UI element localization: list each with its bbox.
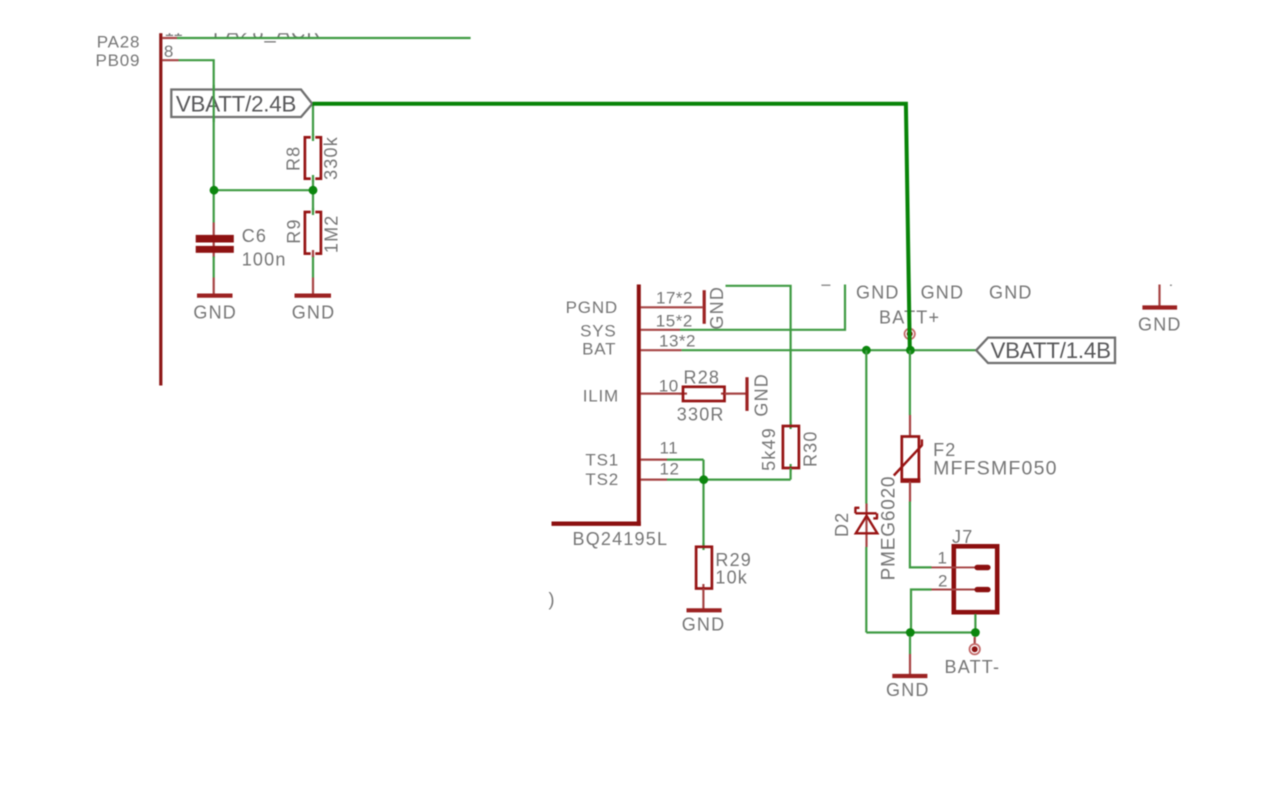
svg-text:VBATT/1.4B: VBATT/1.4B	[991, 338, 1111, 363]
svg-text:J7: J7	[952, 527, 973, 547]
svg-text:330k: 330k	[321, 136, 341, 180]
svg-text:100n: 100n	[242, 250, 287, 270]
svg-text:ILIM: ILIM	[583, 386, 619, 405]
svg-text:10k: 10k	[715, 568, 748, 588]
svg-text:BQ24195L: BQ24195L	[573, 529, 669, 549]
svg-text:R8: R8	[283, 146, 303, 171]
svg-text:GND: GND	[856, 282, 900, 302]
svg-text:PMEG6020: PMEG6020	[879, 476, 900, 581]
svg-text:5k49: 5k49	[759, 427, 779, 471]
svg-text:GND: GND	[1138, 314, 1182, 334]
svg-text:D2: D2	[832, 512, 852, 537]
svg-text:8: 8	[164, 42, 174, 61]
svg-text:R28: R28	[684, 367, 721, 387]
svg-text:R30: R30	[800, 430, 820, 467]
svg-text:GND: GND	[921, 282, 965, 302]
svg-text:2: 2	[938, 572, 948, 591]
svg-text:PA28: PA28	[97, 32, 141, 51]
svg-text:): )	[549, 590, 556, 610]
svg-text:BAT: BAT	[582, 340, 616, 359]
svg-text:MFFSMF050: MFFSMF050	[933, 457, 1058, 479]
svg-text:SYS: SYS	[580, 322, 616, 341]
svg-text:GND: GND	[292, 302, 336, 322]
svg-text:PGND: PGND	[566, 298, 618, 317]
svg-text:GND: GND	[707, 286, 727, 330]
svg-text:330R: 330R	[677, 404, 725, 424]
svg-text:12: 12	[660, 459, 680, 478]
svg-text:17*2: 17*2	[656, 288, 693, 307]
svg-text:BATT-: BATT-	[945, 657, 1001, 677]
svg-text:10: 10	[659, 376, 679, 395]
svg-text:1: 1	[938, 549, 948, 568]
svg-text:R9: R9	[284, 218, 304, 243]
svg-text:GND: GND	[752, 373, 772, 417]
svg-text:TS2: TS2	[585, 470, 619, 489]
svg-text:GND: GND	[682, 614, 726, 634]
svg-text:C6: C6	[242, 226, 267, 246]
svg-text:TS1: TS1	[585, 450, 619, 469]
svg-text:GND: GND	[989, 282, 1033, 302]
svg-text:GND: GND	[193, 302, 237, 322]
svg-text:1M2: 1M2	[322, 214, 342, 253]
svg-text:13*2: 13*2	[659, 332, 696, 351]
svg-text:VBATT/2.4B: VBATT/2.4B	[176, 91, 296, 116]
svg-text:15*2: 15*2	[656, 312, 693, 331]
svg-text:GND: GND	[886, 680, 930, 700]
svg-text:PB09: PB09	[96, 51, 141, 70]
svg-text:11: 11	[660, 438, 679, 457]
